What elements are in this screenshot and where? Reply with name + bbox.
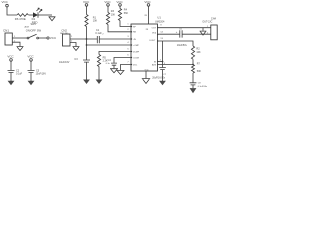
wire C2 to ground — [10, 73, 12, 82]
svg-text:10K: 10K — [196, 51, 201, 54]
node VCC (U1 supply) — [144, 0, 151, 6]
capacitor C2 — [8, 70, 23, 76]
label R4 56K — [124, 9, 129, 15]
svg-text:VCC: VCC — [27, 55, 34, 59]
svg-text:AUX: AUX — [25, 26, 30, 29]
label R3 10K — [111, 10, 116, 16]
wire U1 AVS to R7 junction — [158, 64, 194, 66]
svg-text:OUT-2JC: OUT-2JC — [202, 21, 212, 24]
wire U1 pin6 to C4 — [114, 58, 131, 63]
node VCC (R1 top) — [83, 0, 90, 6]
node D (R7 junction) — [192, 64, 194, 66]
label R2 10K — [196, 48, 201, 54]
wire R2 to junction — [192, 59, 194, 64]
ground (C3, arrow) — [83, 80, 90, 85]
resistor R4 — [118, 9, 121, 21]
capacitor C3 — [59, 58, 90, 64]
label U1 UM3204 — [155, 15, 165, 23]
wire U1 OUT to CN4 pin1 — [158, 27, 211, 29]
node VCC (switch output) — [47, 36, 57, 40]
wire R4 to U1 pin1 — [120, 21, 131, 27]
capacitor C8 — [190, 82, 208, 87]
wire CN1 pin1 to SW1 — [12, 37, 27, 39]
connector CN4 — [202, 18, 217, 40]
connector CN1 — [3, 29, 12, 45]
resistor R3 — [106, 13, 109, 25]
wire VCC down — [7, 7, 17, 15]
svg-text:OUT: OUT — [152, 27, 157, 29]
svg-text:VCC: VCC — [7, 55, 14, 59]
node VCC (top-left) — [2, 0, 9, 7]
svg-text:50K: 50K — [197, 70, 202, 73]
svg-text:0.1uF: 0.1uF — [16, 73, 23, 76]
capacitor C5 — [28, 69, 47, 75]
wire U1 VDd to C6 — [158, 33, 180, 35]
node VCC (R3 top) — [104, 0, 111, 6]
resistor R6 — [17, 14, 28, 17]
wire U1 IN pin to C7 — [158, 61, 163, 63]
ground (C7, arrow) — [159, 81, 166, 86]
node B (pin4 junction) — [86, 44, 88, 46]
svg-text:ON/OFF SW: ON/OFF SW — [26, 28, 42, 32]
ground (CN2) — [73, 47, 80, 51]
wire C5 to ground — [30, 73, 32, 82]
U1 pin names (right) — [150, 27, 157, 66]
switch SW1 — [27, 34, 38, 39]
wire VCC to U1 top pin — [148, 6, 150, 24]
svg-text:CODR: CODR — [133, 57, 140, 59]
connector CN2 — [60, 28, 70, 46]
svg-text:0.1uF/50v: 0.1uF/50v — [198, 86, 208, 88]
op-amp U1 (IC box) — [131, 24, 158, 71]
resistor R7 — [192, 65, 195, 73]
capacitor C4 — [106, 59, 117, 65]
U1 pin names (left) — [133, 26, 149, 71]
wire junction down to C3 — [86, 45, 88, 60]
wire U1 DOUT to R2 — [158, 41, 194, 46]
svg-text:0.1uF: 0.1uF — [95, 32, 102, 35]
ground (U1) — [142, 79, 150, 84]
ground (C8, arrow) — [190, 88, 197, 93]
wire R1 to mic node — [86, 27, 88, 40]
wire ground tap — [202, 28, 204, 31]
resistor R2 — [191, 46, 194, 59]
wire U1 bottom pin to ground — [145, 71, 147, 78]
ground (C5, arrow) — [28, 81, 35, 86]
svg-text:10K: 10K — [111, 13, 116, 16]
label R5 2.2K — [103, 56, 108, 62]
resistor R5 — [97, 55, 100, 67]
ground (R5, arrow) — [96, 80, 103, 85]
resistor R1 — [85, 15, 88, 27]
capacitor C1 — [95, 29, 102, 43]
ground (LED cathode) — [49, 17, 56, 21]
node VCC (C2 top) — [7, 55, 14, 62]
svg-text:10uF/50v: 10uF/50v — [177, 44, 188, 47]
svg-text:10uF/16V: 10uF/16V — [59, 61, 70, 64]
wire CN2 pin2 to ground — [70, 43, 76, 47]
wire C8 to ground — [192, 85, 194, 88]
node VCC (R4 top) — [116, 0, 123, 6]
node C (C7 junction) — [162, 61, 164, 63]
wire VCC to R4 — [119, 6, 121, 8]
svg-text:+CMP: +CMP — [133, 45, 139, 47]
wire C4 to ground — [113, 65, 115, 68]
wire C1 to U1 pin3 — [99, 38, 131, 40]
wire CN1 pin2 to ground — [12, 42, 20, 46]
svg-text:CN1: CN1 — [3, 29, 9, 33]
node A (mic junction) — [86, 38, 88, 40]
ground (C4) — [110, 69, 118, 73]
node VCC (C5 top) — [27, 55, 34, 62]
svg-text:10K: 10K — [93, 20, 98, 23]
svg-text:R6 470E: R6 470E — [15, 17, 26, 21]
svg-text:20uF/16-50v: 20uF/16-50v — [152, 78, 166, 80]
ground (pin7) — [117, 70, 125, 74]
wire U1 pin5 to R5 — [99, 52, 131, 55]
wire R6 to D1 — [29, 14, 33, 16]
wire junction to U1 pin4 — [87, 44, 132, 46]
svg-text:VCC: VCC — [2, 0, 9, 4]
svg-text:SW1: SW1 — [31, 23, 37, 26]
svg-text:VCC: VCC — [50, 36, 57, 40]
wire VCC to C2 — [10, 61, 12, 70]
svg-text:-IN: -IN — [133, 39, 136, 41]
wire SW1 to VCC — [39, 37, 47, 39]
U1 pin dots (right) — [157, 27, 158, 65]
svg-text:56K: 56K — [124, 12, 129, 15]
wire CN2 pin1 to C1 (mic signal) — [70, 38, 97, 40]
wire D1 to ground — [38, 14, 52, 16]
wire VCC to C5 — [30, 61, 32, 70]
svg-text:D1: D1 — [32, 17, 36, 21]
wire R3 to U1 pin2 — [108, 25, 131, 32]
svg-text:CN2: CN2 — [61, 28, 67, 32]
capacitor C7 — [152, 62, 167, 80]
ground (CN1) — [17, 47, 24, 51]
svg-text:AVS: AVS — [152, 64, 157, 67]
wire DOUT branch down — [162, 41, 164, 62]
wire R5 to ground — [98, 67, 100, 80]
wire C7 to ground — [162, 70, 164, 81]
wire U1 pin7 to ground — [121, 65, 132, 71]
svg-text:U1: U1 — [157, 15, 161, 19]
diode D1 (LED) — [33, 8, 42, 18]
wire C3 to ground — [86, 62, 88, 80]
capacitor C6 (polarized) — [176, 29, 188, 47]
wire C6 to CN4 pin2 — [182, 33, 211, 35]
svg-text:UM3204: UM3204 — [155, 21, 165, 24]
wire R7 to C8 — [192, 73, 194, 83]
wire VCC to R3 — [107, 6, 109, 12]
svg-text:DCMP: DCMP — [133, 51, 140, 53]
label R1 10K — [93, 17, 98, 23]
svg-text:DOUT: DOUT — [150, 40, 157, 42]
ground (C2, arrow) — [8, 81, 15, 86]
U1 pin dots (left) — [131, 26, 132, 65]
wire VCC to R1 — [86, 6, 88, 14]
label R7 50K — [197, 63, 202, 73]
ground (output common) — [200, 31, 207, 35]
svg-text:10uF/16V: 10uF/16V — [36, 73, 47, 76]
wire junction down — [86, 39, 88, 45]
